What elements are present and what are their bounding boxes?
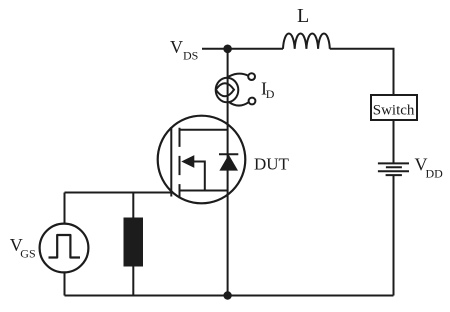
- svg-text:GS: GS: [20, 247, 35, 261]
- svg-text:L: L: [297, 5, 309, 27]
- svg-text:Switch: Switch: [373, 103, 415, 119]
- svg-text:D: D: [266, 87, 275, 101]
- svg-text:V: V: [170, 37, 183, 57]
- svg-text:DUT: DUT: [254, 155, 290, 174]
- svg-text:DD: DD: [426, 167, 444, 181]
- svg-text:DS: DS: [183, 49, 198, 63]
